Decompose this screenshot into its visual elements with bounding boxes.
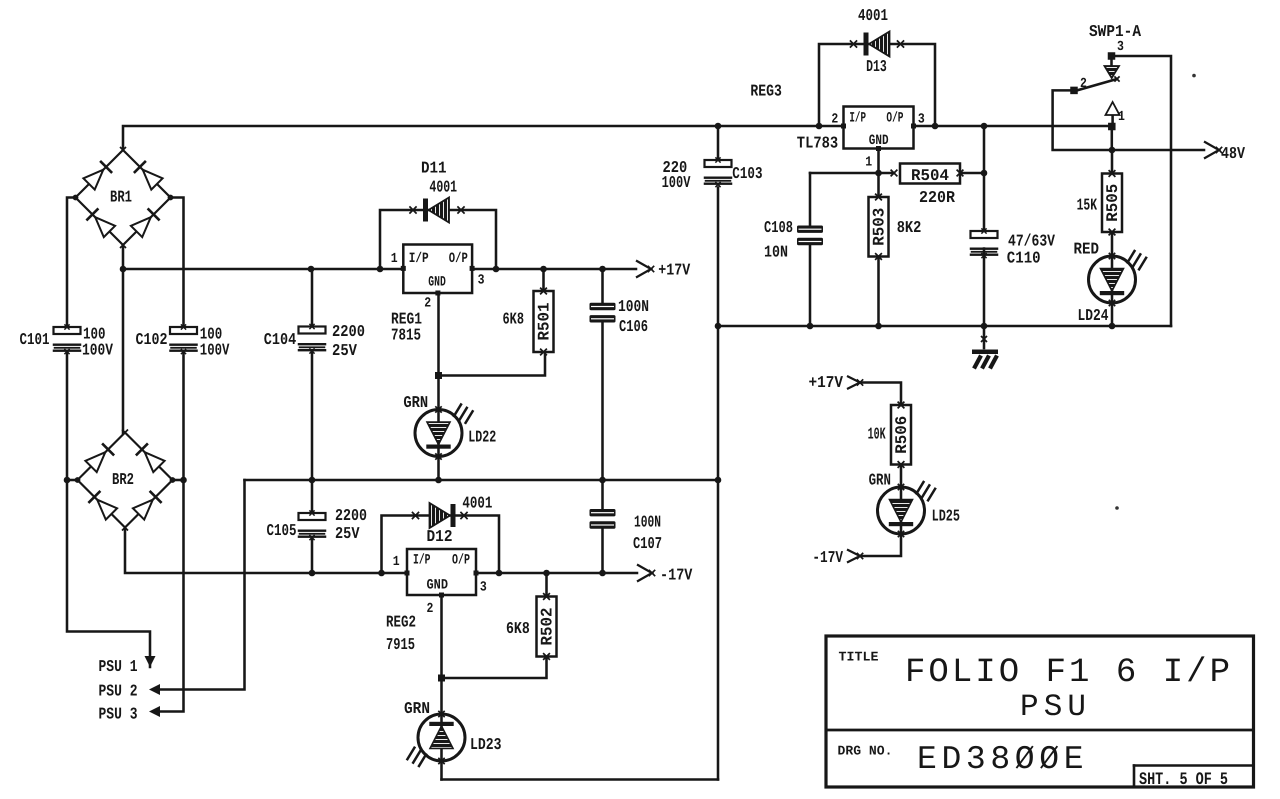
svg-text:25V: 25V bbox=[335, 525, 360, 544]
svg-text:C105: C105 bbox=[267, 522, 297, 541]
svg-text:3: 3 bbox=[918, 112, 925, 128]
svg-text:2200: 2200 bbox=[335, 507, 367, 526]
svg-text:C110: C110 bbox=[1007, 249, 1041, 268]
svg-text:GND: GND bbox=[427, 578, 449, 594]
svg-text:O/P: O/P bbox=[452, 553, 470, 569]
svg-text:PSU: PSU bbox=[1020, 690, 1086, 725]
svg-text:ED38ØØE: ED38ØØE bbox=[917, 741, 1084, 778]
svg-text:BR2: BR2 bbox=[112, 471, 134, 490]
svg-text:48V: 48V bbox=[1221, 145, 1246, 164]
svg-text:25V: 25V bbox=[332, 342, 358, 361]
svg-text:1: 1 bbox=[865, 155, 872, 171]
svg-text:BR1: BR1 bbox=[110, 189, 132, 208]
svg-text:3: 3 bbox=[478, 273, 485, 289]
svg-text:2200: 2200 bbox=[332, 323, 365, 342]
svg-text:15K: 15K bbox=[1077, 197, 1098, 216]
svg-text:GRN: GRN bbox=[404, 700, 430, 719]
svg-text:2: 2 bbox=[831, 112, 838, 128]
svg-text:-17V: -17V bbox=[812, 549, 843, 568]
svg-text:I/P: I/P bbox=[849, 111, 866, 127]
svg-text:I/P: I/P bbox=[409, 251, 429, 267]
svg-text:GRN: GRN bbox=[403, 394, 428, 413]
svg-text:C106: C106 bbox=[619, 318, 648, 337]
svg-text:+17V: +17V bbox=[658, 262, 691, 281]
svg-text:PSU 3: PSU 3 bbox=[99, 706, 138, 725]
svg-text:+17V: +17V bbox=[809, 374, 844, 393]
svg-text:LD22: LD22 bbox=[468, 429, 496, 448]
svg-text:7915: 7915 bbox=[386, 636, 415, 655]
svg-text:100V: 100V bbox=[200, 342, 230, 361]
svg-text:C102: C102 bbox=[136, 331, 168, 350]
svg-text:O/P: O/P bbox=[886, 111, 903, 127]
svg-text:100V: 100V bbox=[82, 342, 114, 361]
svg-text:3: 3 bbox=[480, 580, 487, 596]
svg-text:6K8: 6K8 bbox=[506, 620, 530, 639]
svg-text:LD25: LD25 bbox=[932, 508, 960, 527]
svg-text:REG2: REG2 bbox=[386, 613, 416, 632]
svg-text:D12: D12 bbox=[427, 528, 453, 547]
svg-text:D11: D11 bbox=[421, 160, 447, 179]
svg-text:3: 3 bbox=[1117, 39, 1124, 55]
svg-text:SWP1-A: SWP1-A bbox=[1089, 23, 1142, 42]
svg-text:100N: 100N bbox=[618, 298, 649, 317]
svg-text:100N: 100N bbox=[634, 513, 661, 532]
svg-text:1: 1 bbox=[1118, 109, 1125, 125]
svg-text:R503: R503 bbox=[870, 208, 889, 246]
svg-text:C108: C108 bbox=[764, 219, 793, 238]
svg-text:D13: D13 bbox=[866, 58, 887, 77]
svg-text:C107: C107 bbox=[633, 535, 662, 554]
svg-text:220R: 220R bbox=[919, 189, 956, 208]
svg-text:R502: R502 bbox=[538, 607, 557, 645]
svg-text:4001: 4001 bbox=[462, 494, 492, 513]
svg-text:10K: 10K bbox=[868, 426, 886, 445]
svg-text:10N: 10N bbox=[764, 244, 788, 263]
svg-text:8K2: 8K2 bbox=[897, 219, 922, 238]
svg-text:100V: 100V bbox=[662, 174, 691, 193]
svg-text:2: 2 bbox=[427, 601, 434, 617]
svg-text:6K8: 6K8 bbox=[503, 311, 525, 330]
svg-text:-17V: -17V bbox=[660, 566, 693, 585]
svg-text:R506: R506 bbox=[892, 416, 911, 454]
svg-text:1: 1 bbox=[393, 554, 400, 570]
svg-text:PSU 2: PSU 2 bbox=[99, 683, 138, 702]
svg-text:4001: 4001 bbox=[858, 7, 888, 26]
svg-text:PSU 1: PSU 1 bbox=[99, 658, 138, 677]
svg-text:I/P: I/P bbox=[413, 553, 431, 569]
svg-text:7815: 7815 bbox=[391, 326, 421, 345]
svg-text:TL783: TL783 bbox=[797, 135, 838, 154]
svg-text:GND: GND bbox=[869, 133, 889, 149]
svg-text:1: 1 bbox=[391, 251, 398, 267]
svg-text:GRN: GRN bbox=[869, 472, 891, 491]
svg-text:R501: R501 bbox=[535, 302, 554, 340]
svg-text:2: 2 bbox=[424, 296, 431, 312]
svg-text:DRG NO.: DRG NO. bbox=[838, 745, 893, 759]
svg-text:TITLE: TITLE bbox=[839, 651, 879, 665]
svg-text:2: 2 bbox=[1080, 76, 1087, 92]
svg-text:C101: C101 bbox=[20, 331, 50, 350]
svg-text:4001: 4001 bbox=[429, 178, 457, 197]
svg-text:LD24: LD24 bbox=[1078, 307, 1109, 326]
svg-text:O/P: O/P bbox=[449, 251, 468, 267]
svg-text:R504: R504 bbox=[911, 166, 949, 185]
svg-text:LD23: LD23 bbox=[470, 736, 502, 755]
svg-text:C103: C103 bbox=[732, 165, 762, 184]
svg-text:R505: R505 bbox=[1103, 184, 1122, 222]
svg-text:GND: GND bbox=[428, 275, 446, 291]
svg-text:REG3: REG3 bbox=[750, 83, 782, 102]
svg-text:C104: C104 bbox=[264, 331, 296, 350]
svg-text:RED: RED bbox=[1074, 240, 1100, 259]
svg-text:SHT. 5 OF 5: SHT. 5 OF 5 bbox=[1139, 769, 1228, 789]
